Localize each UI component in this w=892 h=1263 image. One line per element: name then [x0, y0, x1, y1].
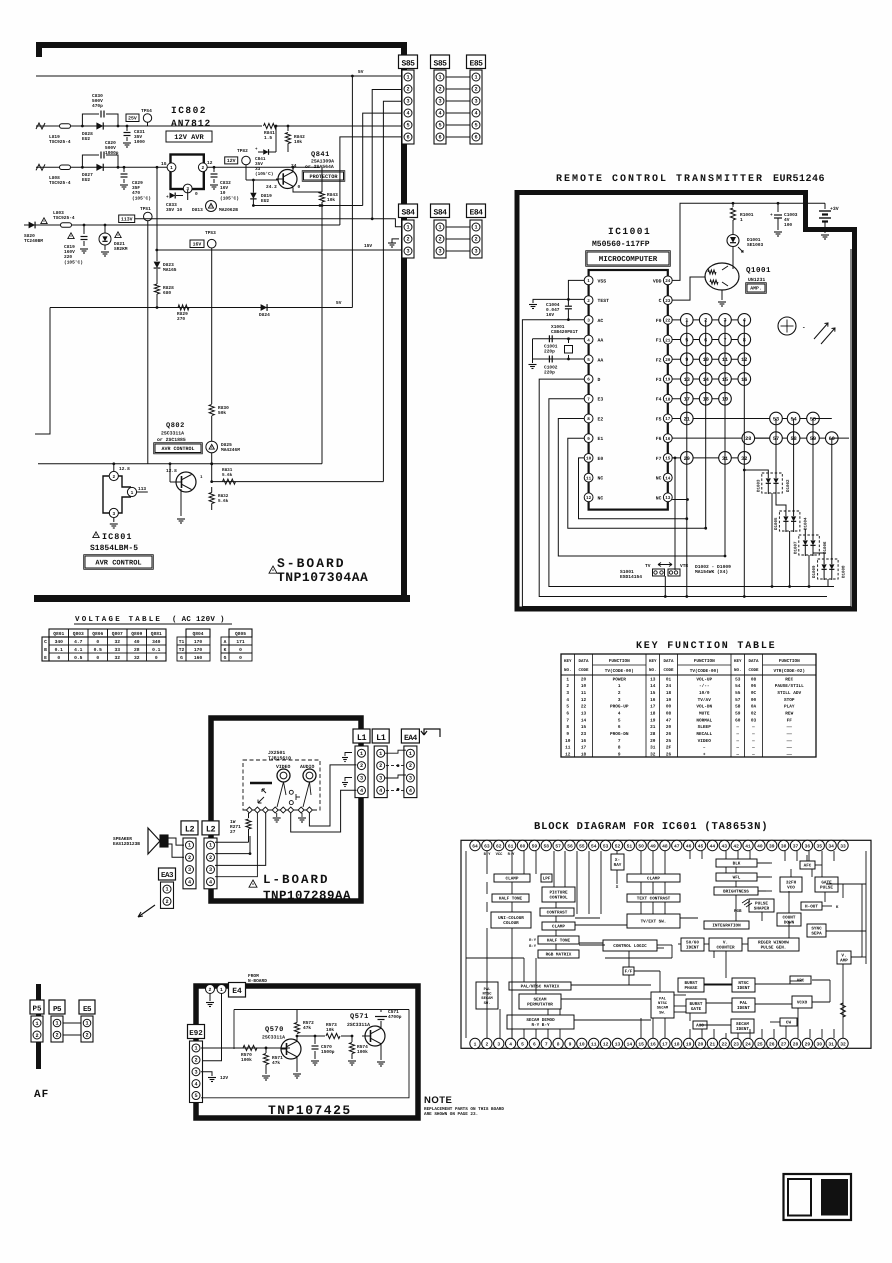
key button 28	[742, 432, 755, 445]
block UNI-COLOUR COLOUR	[491, 912, 531, 928]
svg-text:PROG-DN: PROG-DN	[610, 732, 629, 737]
svg-text:D825: D825	[221, 442, 232, 448]
voltage regulator IC802 body	[171, 155, 204, 190]
svg-text:EA4: EA4	[404, 734, 418, 743]
svg-text:8: 8	[566, 725, 569, 730]
svg-text:4: 4	[438, 111, 441, 117]
svg-text:11: 11	[591, 1041, 597, 1047]
svg-text:3: 3	[474, 99, 477, 105]
wire R831 row	[212, 481, 383, 483]
svg-text:5V: 5V	[336, 301, 342, 306]
svg-text:50: 50	[638, 843, 644, 849]
svg-text:TV: TV	[645, 564, 651, 569]
svg-text:X: X	[616, 885, 619, 890]
ground under E4 pin2	[209, 994, 211, 1002]
svg-text:E0: E0	[598, 456, 604, 462]
wire net E1 loop	[568, 438, 706, 528]
svg-text:35V 10: 35V 10	[166, 207, 183, 213]
svg-text:—: —	[751, 739, 755, 744]
svg-text:1: 1	[170, 166, 173, 171]
svg-text:INTEGRATION: INTEGRATION	[712, 924, 741, 929]
svg-text:32: 32	[840, 1041, 846, 1047]
svg-text:01: 01	[666, 677, 672, 682]
svg-text:IC1001: IC1001	[608, 226, 651, 237]
svg-text:16: 16	[650, 698, 656, 703]
svg-text:–: –	[703, 746, 706, 751]
svg-text:13: 13	[615, 1041, 621, 1047]
svg-text:24: 24	[666, 684, 672, 689]
svg-text:4: 4	[188, 879, 191, 885]
connector P5 on bar	[30, 1000, 44, 1014]
key buttons 17-19	[681, 392, 694, 405]
svg-text:15: 15	[650, 691, 656, 696]
svg-text:40: 40	[134, 639, 140, 645]
svg-text:34: 34	[828, 843, 834, 849]
svg-text:2: 2	[112, 474, 115, 480]
svg-text:1: 1	[618, 684, 621, 689]
svg-text:18: 18	[665, 397, 671, 402]
svg-text:36: 36	[805, 843, 811, 849]
svg-text:R573: R573	[326, 1022, 337, 1028]
svg-text:EA3: EA3	[161, 871, 174, 880]
svg-text:NC: NC	[656, 476, 662, 482]
wire rail y205	[253, 205, 363, 207]
svg-text:TV(CODE-00): TV(CODE-00)	[605, 668, 634, 674]
svg-text:M50560-117FP: M50560-117FP	[592, 240, 650, 249]
svg-text:FUNCTION: FUNCTION	[779, 659, 800, 664]
svg-text:Q804: Q804	[192, 631, 203, 637]
svg-text:TV(CODE-00): TV(CODE-00)	[690, 668, 719, 674]
svg-text:22: 22	[665, 319, 671, 324]
svg-text:C571: C571	[388, 1009, 399, 1015]
connector E4	[206, 985, 215, 994]
svg-text:5.6k: 5.6k	[222, 472, 233, 478]
top rail	[234, 1009, 297, 1011]
label L-BOARD	[249, 880, 257, 887]
wire F7 to switch	[672, 458, 675, 570]
svg-text:SW.: SW.	[659, 1010, 666, 1015]
connector L2 on border	[202, 821, 219, 835]
block CLAMP left	[494, 874, 530, 882]
block X-RAY	[611, 854, 624, 870]
wire D824 row 5V	[50, 307, 352, 309]
label IC801	[93, 532, 99, 538]
svg-text:R842: R842	[294, 134, 305, 140]
wire Q841 collector	[293, 188, 322, 193]
svg-text:29: 29	[650, 739, 656, 744]
svg-text:MUTE: MUTE	[699, 711, 710, 716]
svg-text:L819: L819	[49, 134, 60, 140]
svg-text:10: 10	[579, 1041, 585, 1047]
svg-text:B-Y: B-Y	[529, 944, 537, 949]
svg-text:PHASE: PHASE	[685, 986, 698, 991]
svg-text:D1005: D1005	[774, 517, 779, 530]
svg-text:41: 41	[745, 843, 751, 849]
svg-text:S84: S84	[434, 208, 448, 217]
svg-text:KEY: KEY	[649, 659, 657, 664]
svg-text:1000p: 1000p	[105, 150, 119, 156]
svg-text:59: 59	[532, 843, 538, 849]
svg-text:46: 46	[686, 843, 692, 849]
hook arrow near EA4	[421, 729, 440, 737]
svg-text:—: —	[751, 746, 755, 751]
svg-text:JX2501: JX2501	[268, 750, 285, 756]
wire L-stub lower-left	[35, 308, 50, 435]
svg-text:Q881: Q881	[151, 631, 162, 637]
svg-text:D824: D824	[259, 312, 270, 318]
svg-text:1: 1	[566, 677, 569, 682]
svg-text:2: 2	[406, 87, 409, 93]
svg-text:30: 30	[817, 1041, 823, 1047]
svg-text:24: 24	[665, 279, 671, 284]
resistor R573	[326, 1033, 340, 1038]
svg-text:0.5: 0.5	[94, 647, 103, 653]
svg-text:KEY: KEY	[734, 659, 742, 664]
L-BOARD frame	[211, 718, 361, 901]
svg-text:VCXO: VCXO	[797, 1001, 808, 1006]
svg-text:D823: D823	[163, 262, 174, 268]
block PAL NTSC SECAM SW left	[476, 982, 498, 1009]
svg-text:S820: S820	[24, 233, 35, 239]
svg-text:4: 4	[618, 711, 621, 716]
diode D828	[96, 122, 103, 129]
wire net E3 loop	[549, 399, 834, 587]
svg-text:SEPA: SEPA	[811, 932, 822, 937]
wire Q571 emitter	[380, 1043, 382, 1060]
svg-text:19: 19	[650, 718, 656, 723]
svg-text:2: 2	[618, 691, 621, 696]
svg-text:D1002: D1002	[786, 479, 791, 492]
svg-text:+3V: +3V	[830, 206, 839, 212]
svg-text:FF: FF	[787, 718, 793, 723]
svg-text:—: —	[735, 746, 739, 751]
svg-text:18: 18	[581, 752, 587, 757]
svg-text:T2: T2	[179, 647, 185, 653]
svg-text:R570: R570	[241, 1052, 252, 1058]
svg-text:AA: AA	[598, 357, 604, 363]
diode D825 circled	[206, 441, 218, 453]
svg-text:IC801: IC801	[102, 532, 133, 542]
svg-text:(105'C): (105'C)	[255, 171, 273, 177]
label 113V	[119, 215, 135, 223]
wire net AC loop	[522, 249, 851, 607]
block diagram top pins 64-33	[470, 840, 480, 850]
svg-text:HALF TONE: HALF TONE	[499, 897, 523, 902]
svg-text:DATA: DATA	[578, 659, 589, 664]
svg-text:WFL: WFL	[733, 876, 741, 881]
audio jack	[303, 769, 316, 782]
svg-text:4: 4	[379, 788, 382, 794]
svg-text:( AC 120V ): ( AC 120V )	[172, 615, 225, 624]
warning triangle	[115, 232, 121, 238]
svg-text:or 2SA564A: or 2SA564A	[305, 164, 334, 170]
wire Q841 emitter	[292, 167, 294, 170]
svg-text:13: 13	[665, 496, 671, 501]
wire right rail down	[201, 1010, 409, 1098]
svg-text:—: —	[751, 725, 755, 730]
svg-text:3: 3	[497, 1041, 500, 1047]
svg-text:P5: P5	[32, 1006, 42, 1014]
svg-text:CODE: CODE	[663, 668, 674, 673]
svg-text:61: 61	[508, 843, 514, 849]
svg-text:10/0: 10/0	[699, 690, 710, 696]
svg-text:VCO: VCO	[787, 886, 795, 891]
svg-text:EU2: EU2	[82, 136, 90, 142]
resistor R574	[341, 1035, 352, 1037]
svg-text:2: 2	[209, 855, 212, 861]
legend white square	[788, 1179, 811, 1216]
svg-text:S85: S85	[434, 59, 448, 68]
svg-text:AFC: AFC	[804, 864, 812, 869]
diode column 53/57	[775, 418, 777, 473]
svg-text:0: 0	[239, 655, 242, 661]
svg-text:C1002: C1002	[544, 365, 558, 371]
svg-text:FUNCTION: FUNCTION	[609, 659, 630, 664]
block PAL NTSC SECAM SW right	[651, 992, 674, 1018]
svg-text:4: 4	[509, 1041, 512, 1047]
svg-text:12.8: 12.8	[166, 468, 177, 474]
svg-text:REMOTE CONTROL TRANSMITTER: REMOTE CONTROL TRANSMITTER	[556, 174, 764, 185]
svg-text:D1007: D1007	[793, 541, 798, 554]
svg-text:D828: D828	[82, 131, 93, 137]
svg-text:29: 29	[805, 1041, 811, 1047]
svg-text:60: 60	[735, 718, 741, 723]
svg-text:TPS4: TPS4	[141, 108, 152, 114]
svg-text:C829: C829	[132, 180, 143, 186]
block PAL IDENT	[732, 998, 755, 1012]
svg-text:STILL ADV: STILL ADV	[777, 691, 801, 696]
key buttons 53-55	[770, 412, 783, 425]
svg-text:21: 21	[650, 725, 656, 730]
svg-text:F/F: F/F	[625, 969, 633, 975]
svg-text:10: 10	[220, 190, 226, 196]
svg-text:10: 10	[581, 684, 587, 689]
svg-text:COLOUR: COLOUR	[503, 921, 519, 926]
svg-text:VOLTAGE TABLE: VOLTAGE TABLE	[75, 615, 162, 624]
svg-text:13: 13	[581, 711, 587, 716]
block CW	[780, 1018, 797, 1026]
svg-text:10k: 10k	[327, 197, 335, 203]
svg-text:Q807: Q807	[112, 631, 123, 637]
svg-text:2: 2	[360, 763, 363, 769]
svg-text:12V: 12V	[227, 158, 236, 164]
svg-text:35F: 35F	[132, 185, 140, 191]
svg-text:PROTECTOR: PROTECTOR	[309, 174, 338, 180]
svg-text:2: 2	[438, 87, 441, 93]
svg-text:100k: 100k	[357, 1049, 368, 1055]
transistor Q802	[176, 472, 196, 492]
svg-text:GATE: GATE	[691, 1007, 702, 1012]
svg-text:500V: 500V	[92, 98, 103, 104]
capacitor C1004	[568, 280, 584, 299]
inductor L803	[61, 223, 72, 228]
wire row3 225	[24, 224, 340, 226]
svg-text:1: 1	[474, 225, 477, 231]
capacitor C571	[380, 1021, 382, 1029]
svg-text:TSC925-4: TSC925-4	[49, 139, 71, 145]
hook grounds near L1	[345, 753, 352, 757]
svg-text:4: 4	[474, 111, 477, 117]
svg-text:16V: 16V	[220, 185, 228, 191]
svg-text:2: 2	[55, 1033, 58, 1039]
svg-text:9: 9	[587, 437, 590, 442]
svg-text:11: 11	[586, 476, 592, 481]
svg-text:R841: R841	[264, 130, 275, 136]
svg-text:Q571: Q571	[350, 1013, 369, 1021]
svg-text:2F: 2F	[666, 746, 672, 751]
key matrix column wires	[686, 320, 688, 597]
resistor R572	[296, 1035, 298, 1042]
svg-text:1: 1	[360, 751, 363, 757]
svg-text:+: +	[166, 195, 169, 200]
svg-text:Q809: Q809	[131, 631, 142, 637]
svg-text:C: C	[659, 298, 662, 304]
svg-text:(105'C): (105'C)	[64, 259, 83, 265]
svg-text:Q570: Q570	[265, 1026, 284, 1034]
svg-text:TNP107289AA: TNP107289AA	[263, 889, 351, 903]
svg-text:5: 5	[566, 705, 569, 710]
svg-text:5: 5	[438, 123, 441, 129]
wire key matrix row extensions	[755, 437, 769, 439]
svg-text:NO.: NO.	[734, 668, 742, 673]
svg-text:2: 2	[35, 1033, 38, 1039]
svg-text:C830: C830	[92, 93, 103, 99]
svg-text:E84: E84	[470, 208, 484, 217]
voltage table main	[49, 629, 166, 637]
svg-text:47k: 47k	[303, 1025, 311, 1031]
wire row1 126	[36, 125, 262, 127]
svg-text:20: 20	[666, 725, 672, 730]
svg-text:AVR CONTROL: AVR CONTROL	[95, 560, 141, 568]
svg-text:E: E	[44, 655, 47, 661]
capacitor C570	[314, 1035, 317, 1038]
resistor R829	[178, 305, 189, 310]
svg-text:F4: F4	[656, 397, 662, 403]
svg-text:2: 2	[485, 1041, 488, 1047]
svg-text:LPF: LPF	[543, 877, 551, 882]
svg-text:F2: F2	[656, 357, 662, 363]
svg-text:26: 26	[666, 732, 672, 737]
svg-text:DATA: DATA	[748, 659, 759, 664]
svg-text:CONTRAST: CONTRAST	[547, 911, 568, 916]
svg-text:E3: E3	[598, 397, 604, 403]
svg-text:28: 28	[134, 647, 140, 653]
svg-text:EU2: EU2	[82, 177, 90, 183]
svg-text:DATA: DATA	[663, 659, 674, 664]
svg-text:63: 63	[484, 843, 490, 849]
svg-text:SPEAKER: SPEAKER	[113, 836, 132, 842]
battery +3V	[824, 203, 826, 209]
svg-text:1500p: 1500p	[321, 1049, 335, 1055]
block ACC	[693, 1021, 707, 1029]
svg-text:2: 2	[409, 763, 412, 769]
diode D827	[96, 164, 103, 171]
svg-text:D813: D813	[192, 207, 203, 213]
wire E92-3 ground	[201, 1072, 212, 1076]
svg-text:25: 25	[666, 739, 672, 744]
svg-text:1: 1	[194, 1046, 197, 1052]
resistor R830	[209, 405, 214, 416]
svg-text:-: -	[802, 324, 806, 331]
block RGB MATRIX	[538, 950, 579, 958]
svg-text:26: 26	[666, 752, 672, 757]
diode pair D1009 D1008	[818, 559, 839, 579]
svg-text:1: 1	[474, 1041, 477, 1047]
block CLAMP mid	[542, 922, 575, 930]
svg-text:NO.: NO.	[564, 668, 572, 673]
svg-text:18: 18	[674, 1041, 680, 1047]
svg-text:BLK: BLK	[733, 862, 741, 867]
svg-text:55: 55	[735, 691, 741, 696]
svg-text:4: 4	[587, 338, 590, 343]
svg-text:0.1: 0.1	[55, 647, 64, 653]
svg-text:43: 43	[722, 843, 728, 849]
svg-text:RGB MATRIX: RGB MATRIX	[546, 953, 572, 958]
svg-text:1.5: 1.5	[264, 136, 272, 141]
svg-text:AC: AC	[598, 318, 604, 324]
transistor Q571	[365, 1026, 385, 1046]
svg-text:3: 3	[406, 249, 409, 255]
wires L1 to EA4	[385, 750, 406, 753]
svg-text:PULSE GEN.: PULSE GEN.	[761, 946, 787, 951]
label 16V	[190, 240, 204, 248]
svg-text:VIDEO: VIDEO	[698, 739, 712, 744]
svg-text:23: 23	[581, 732, 587, 737]
wire row1 right to S85 pin5	[276, 125, 401, 127]
svg-text:8: 8	[618, 746, 621, 751]
svg-text:R572: R572	[303, 1020, 314, 1026]
svg-text:15V: 15V	[364, 244, 372, 249]
speaker EAS12D123B	[160, 835, 168, 847]
wire Q802 emitter	[180, 489, 182, 516]
block HALF TONE 2	[538, 936, 579, 944]
svg-text:17: 17	[650, 705, 656, 710]
svg-text:48: 48	[662, 843, 668, 849]
block HALF TONE	[492, 894, 529, 902]
block REGER WINDOW	[748, 938, 799, 951]
block V COUNTER	[709, 938, 742, 951]
svg-text:ARE SHOWN ON PAGE 23.: ARE SHOWN ON PAGE 23.	[424, 1112, 478, 1117]
svg-text:19: 19	[686, 1041, 692, 1047]
svg-text:POWER: POWER	[613, 677, 627, 682]
connector E5	[79, 1000, 95, 1014]
svg-text:R1001: R1001	[740, 212, 754, 218]
svg-text:TPS3: TPS3	[205, 230, 216, 236]
svg-text:270: 270	[177, 316, 185, 322]
svg-text:17: 17	[665, 417, 671, 422]
svg-text:3: 3	[587, 319, 590, 324]
svg-text:02: 02	[751, 711, 757, 716]
svg-text:1: 1	[406, 225, 409, 231]
svg-text:7: 7	[566, 718, 569, 723]
svg-text:57: 57	[555, 843, 561, 849]
svg-text:12: 12	[581, 698, 587, 703]
svg-text:28: 28	[745, 436, 751, 442]
key buttons 29 31 32	[681, 452, 694, 465]
block diagram wires	[511, 851, 513, 874]
svg-text:27: 27	[230, 829, 236, 835]
svg-text:2: 2	[85, 1033, 88, 1039]
svg-text:E92: E92	[189, 1029, 203, 1038]
svg-text:REW: REW	[785, 711, 793, 716]
block SYNC SEPA	[807, 924, 826, 937]
wire 15V row	[157, 249, 401, 251]
IC1001 microcomputer body	[589, 270, 668, 510]
svg-text:160V: 160V	[64, 249, 75, 255]
svg-text:MA154WK (X4): MA154WK (X4)	[695, 569, 728, 575]
wire Q570 collector to R573	[296, 1035, 299, 1038]
contact row diamonds	[244, 809, 315, 811]
